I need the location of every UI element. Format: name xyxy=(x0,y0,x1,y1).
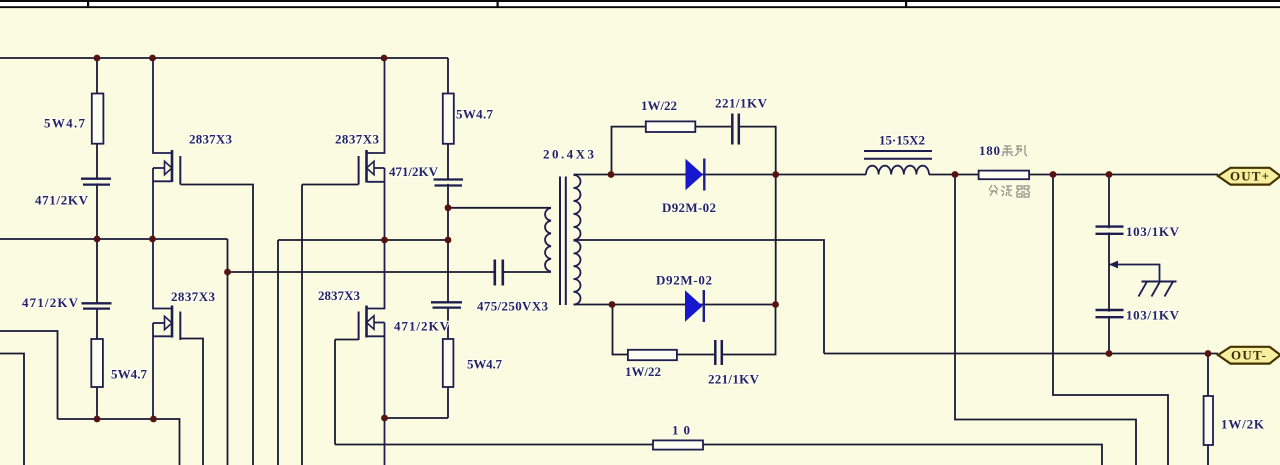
transistor Q4 2837X3 bottom-mid xyxy=(359,240,385,465)
resistor R10 1W/2K xyxy=(1204,396,1213,445)
svg-text:5W4.7: 5W4.7 xyxy=(456,107,494,122)
svg-text:5W4.7: 5W4.7 xyxy=(44,116,86,131)
label shunt fenliuqi xyxy=(989,185,1030,197)
wire right stair x1053 xyxy=(1053,175,1168,465)
wire M3 gate run x302 xyxy=(302,185,359,465)
wire left stair y353 xyxy=(0,354,24,465)
cap gap erasers xyxy=(82,180,1122,316)
transistor Q3 2837X3 top-mid xyxy=(359,58,385,240)
wire M4 gate run x335 xyxy=(335,340,359,445)
svg-text:180: 180 xyxy=(979,143,1000,158)
diode D1 D92M-02 xyxy=(686,159,705,191)
svg-text:OUT-: OUT- xyxy=(1231,348,1266,363)
svg-text:15·15X2: 15·15X2 xyxy=(879,133,925,148)
inductor L1 15-15X2 xyxy=(864,151,932,175)
wire source bus y418 xyxy=(385,417,449,419)
svg-text:1W/22: 1W/22 xyxy=(641,98,677,113)
capacitor C3 471/2KV bottom-left xyxy=(82,303,112,308)
wire primary top y208 xyxy=(448,207,551,209)
svg-text:471/2KV: 471/2KV xyxy=(22,295,79,310)
port flag OUT- xyxy=(1218,347,1280,364)
wire bottom run y444.5 to x1102 xyxy=(335,445,1102,465)
svg-text:2837X3: 2837X3 xyxy=(171,289,216,304)
wire snubber1 loop xyxy=(612,127,776,175)
svg-text:D92M-02: D92M-02 xyxy=(662,200,716,215)
frame tick B xyxy=(497,0,499,8)
svg-text:5W4.7: 5W4.7 xyxy=(467,357,503,372)
wire primary feed y272 xyxy=(228,271,552,273)
capacitor C1 471/2KV top-left xyxy=(81,179,111,185)
wire mid-left bus y239 with drop at x227 xyxy=(0,239,228,465)
capacitor C5 475/250VX3 series xyxy=(495,260,503,286)
resistor R7 1W/22 lower snubber xyxy=(628,350,677,360)
svg-text:2837X3: 2837X3 xyxy=(335,132,380,147)
svg-text:1W/2K: 1W/2K xyxy=(1221,417,1265,432)
resistor R3 5W4.7 bottom-left xyxy=(91,339,103,387)
resistor R8 shunt 180-series xyxy=(979,171,1030,180)
resistor R4 5W4.7 bottom-right xyxy=(443,339,454,387)
wire load resistor column x1208 xyxy=(1207,354,1209,465)
svg-text:471/2KV: 471/2KV xyxy=(35,193,89,208)
transistor Q2 2837X3 bottom-left xyxy=(153,239,180,419)
wire snubber2 loop xyxy=(613,305,776,355)
svg-text:475/250VX3: 475/250VX3 xyxy=(477,299,549,314)
capacitor C6 221/1KV upper snubber xyxy=(732,114,739,145)
transformer T1 20.4X3 xyxy=(545,175,580,305)
svg-text:221/1KV: 221/1KV xyxy=(708,372,760,387)
svg-text:2837X3: 2837X3 xyxy=(189,132,233,147)
svg-text:221/1KV: 221/1KV xyxy=(715,96,768,111)
wire filter cap column x1109 xyxy=(1108,175,1110,354)
svg-text:103/1KV: 103/1KV xyxy=(1126,224,1180,239)
wire control bus x278 xyxy=(277,240,279,465)
port flag OUT+ xyxy=(1218,168,1280,185)
wire M2 gate run x203 xyxy=(181,339,204,465)
capacitor C9 103/1KV lower xyxy=(1096,310,1124,317)
wire center tap to OUT- xyxy=(574,240,1219,354)
wire M1 gate run x253 xyxy=(181,185,254,465)
resistor R6 1W/22 upper snubber xyxy=(646,121,696,132)
svg-text:2837X3: 2837X3 xyxy=(318,288,361,303)
capacitor C4 471/2KV bottom-right xyxy=(431,302,462,307)
resistor R1 5W4.7 top-left xyxy=(92,94,104,144)
capacitor C2 471/2KV top-right xyxy=(434,180,464,186)
wire rectifier junction x775.7 xyxy=(775,175,777,305)
transistor Q1 2837X3 top-left xyxy=(153,58,180,239)
wire secondary bottom y304.5 xyxy=(574,304,777,306)
wire left column x97 xyxy=(96,58,98,419)
ground chassis symbol xyxy=(1109,261,1177,297)
wire secondary top rail OUT+ y174.5 xyxy=(574,174,1219,176)
wire mid-right bus y240 xyxy=(278,239,448,241)
wire left stair y331 xyxy=(0,331,58,419)
frame strip xyxy=(0,0,1280,8)
wire top rail xyxy=(0,57,448,59)
svg-text:471/2KV: 471/2KV xyxy=(394,319,450,334)
diode D2 D92M-02 xyxy=(685,290,704,322)
capacitor C8 103/1KV upper xyxy=(1096,227,1124,234)
svg-text:471/2KV: 471/2KV xyxy=(389,164,439,179)
svg-text:OUT+: OUT+ xyxy=(1230,169,1269,184)
resistor R2 5W4.7 top-right xyxy=(443,94,454,144)
svg-text:D92M-02: D92M-02 xyxy=(656,273,712,288)
svg-text:103/1KV: 103/1KV xyxy=(1126,308,1180,323)
wire right column x448 xyxy=(447,58,449,418)
svg-text:5W4.7: 5W4.7 xyxy=(111,367,148,382)
wire bottom-left bus y419 xyxy=(58,419,180,465)
frame tick A xyxy=(87,0,89,8)
wire right stair x955 xyxy=(955,175,1136,465)
capacitor C7 221/1KV lower snubber xyxy=(715,340,722,365)
resistor R9 10 xyxy=(653,440,703,449)
frame tick C xyxy=(905,0,907,8)
label shunt 180 series xyxy=(979,143,1027,158)
svg-text:1W/22: 1W/22 xyxy=(625,364,661,379)
